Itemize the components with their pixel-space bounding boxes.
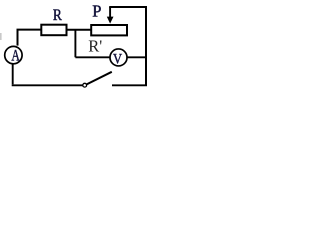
wire: top horizontal from corner to resistor R [17, 29, 41, 31]
switch blade (open) [87, 72, 112, 85]
ammeter A [5, 46, 22, 63]
wire: voltmeter to right side [127, 56, 146, 58]
svg-text:R': R' [88, 37, 102, 56]
wire: branch junction down to voltmeter row [74, 30, 76, 58]
svg-text:V: V [113, 52, 122, 68]
svg-text:R: R [53, 7, 62, 24]
wire: branch horizontal to voltmeter V [75, 56, 110, 58]
wire: bottom right segment to right corner [112, 84, 147, 86]
wiper arrow of P [109, 7, 111, 18]
svg-text:P: P [92, 2, 101, 21]
wire: ammeter down to bottom-left corner and along bottom to switch [12, 63, 83, 85]
faint scan artifact left edge [0, 33, 2, 40]
wire: resistor R to potentiometer P [67, 29, 92, 31]
wire: left vertical from top-left corner down to ammeter [17, 30, 19, 46]
resistor R [41, 25, 66, 36]
svg-text:A: A [11, 48, 20, 65]
voltmeter V [110, 49, 127, 66]
potentiometer P body [91, 25, 127, 35]
switch pivot contact [83, 83, 87, 87]
wire: wiper up and right, down right side [109, 7, 146, 85]
